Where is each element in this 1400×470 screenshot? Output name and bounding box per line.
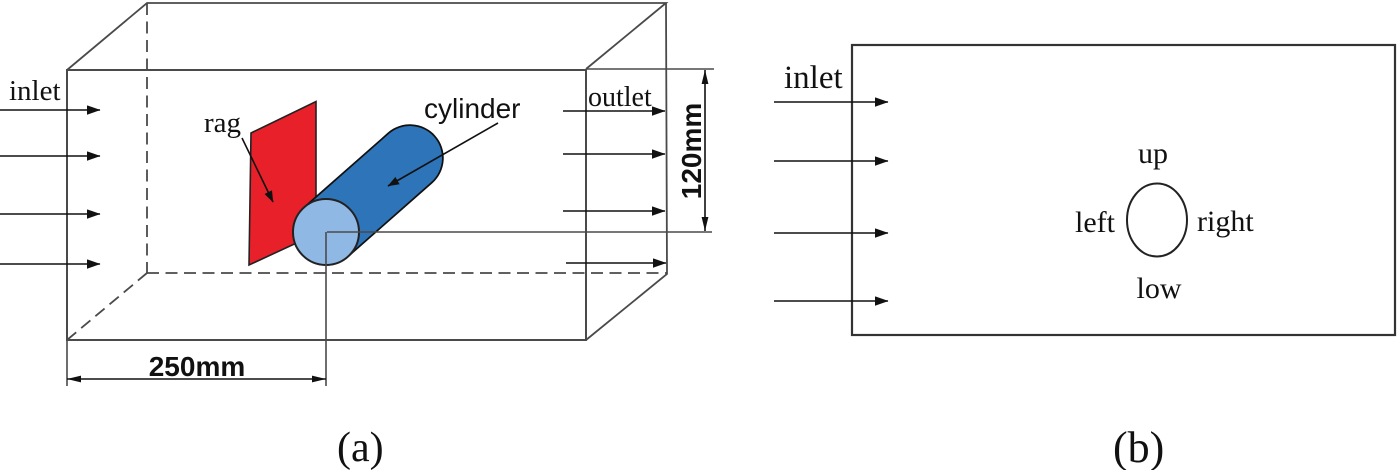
inlet arrow 1 (b) [774, 101, 888, 103]
inlet arrow 3 (b) [774, 232, 888, 234]
hidden bottom-left diagonal edge (dashed) [67, 273, 147, 340]
centre reference line vertical [325, 232, 327, 386]
cylinder cross-section ellipse [1127, 184, 1187, 257]
inlet arrow 3 (a) [0, 213, 100, 215]
cylinder front circle [293, 199, 359, 265]
svg-text:left: left [1075, 206, 1116, 239]
cylinder body outline [326, 158, 410, 232]
rag pointer arrow [242, 138, 273, 202]
cylinder body fill [326, 158, 410, 232]
svg-text:inlet: inlet [784, 60, 843, 96]
svg-text:250mm: 250mm [149, 351, 246, 382]
box front face [67, 70, 586, 340]
250mm dimension line [67, 378, 326, 380]
inlet arrow 4 (b) [774, 300, 888, 302]
rag (red plate) [249, 102, 316, 266]
svg-text:(b): (b) [1113, 423, 1164, 470]
box top face [67, 3, 666, 70]
svg-text:rag: rag [204, 107, 241, 139]
svg-text:up: up [1138, 137, 1168, 170]
120mm dimension line [704, 70, 706, 231]
outlet arrow 3 (a) [563, 210, 665, 212]
rectangle domain (b) [852, 45, 1395, 335]
inlet arrow 2 (b) [774, 160, 888, 162]
svg-text:right: right [1197, 205, 1254, 238]
svg-text:outlet: outlet [588, 82, 652, 113]
hidden back-bottom edge (dashed) [147, 272, 667, 274]
inlet arrow 4 (a) [0, 263, 100, 265]
inlet arrow 1 (a) [0, 109, 100, 111]
svg-text:inlet: inlet [9, 75, 61, 107]
svg-text:120mm: 120mm [676, 103, 707, 200]
svg-text:cylinder: cylinder [424, 93, 520, 124]
cylinder pointer arrow [388, 123, 498, 186]
centre reference line horizontal [327, 231, 712, 233]
left extension line for 250mm [66, 341, 68, 386]
outlet arrow 1 (a) [563, 110, 665, 112]
top extension line for 120mm [586, 68, 714, 70]
box right face [586, 3, 667, 340]
outlet arrow 2 (a) [563, 153, 665, 155]
svg-text:(a): (a) [337, 425, 384, 470]
svg-text:low: low [1137, 272, 1182, 305]
outlet arrow 4 (a) [566, 262, 666, 264]
hidden back-left vertical edge (dashed) [146, 3, 148, 273]
inlet arrow 2 (a) [0, 155, 100, 157]
